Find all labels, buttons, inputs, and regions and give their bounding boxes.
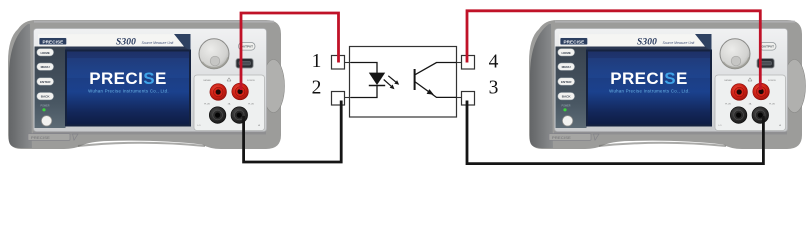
LED D1 anode wire from pin 1: [351, 63, 377, 74]
optocoupler U3 body: [350, 47, 457, 118]
LED D1 triangle: [369, 73, 385, 85]
phototransistor Q1 base bar: [414, 69, 416, 90]
pin 4 lead box: [456, 56, 475, 70]
phototransistor Q1 collector to pin 4: [415, 63, 456, 75]
pin 2 lead box: [332, 92, 352, 106]
pin 1 lead box: [332, 56, 352, 70]
light arrow lower: [384, 80, 395, 90]
wire black left (U1 force- to pin 2): [244, 101, 342, 163]
wire red left (U1 force+ to pin 1): [241, 13, 339, 90]
LED D1 cathode bar: [369, 85, 385, 87]
phototransistor Q1 emitter arrow: [427, 89, 434, 95]
light arrow upper: [388, 76, 399, 85]
instrument U1 (left source measure unit): [8, 20, 285, 149]
LED D1 cathode wire to pin 2: [351, 86, 377, 98]
wire black right (pin 3 to U2 force-): [467, 101, 763, 164]
svg-text:2: 2: [312, 78, 322, 99]
instrument U2 (right source measure unit): [529, 20, 806, 149]
phototransistor Q1 emitter to pin 3: [415, 82, 456, 97]
svg-text:3: 3: [489, 77, 499, 98]
svg-text:1: 1: [312, 51, 322, 72]
wire red right (pin 4 to U2 force+): [467, 11, 760, 90]
svg-text:4: 4: [489, 52, 499, 73]
pin 3 lead box: [456, 92, 475, 106]
